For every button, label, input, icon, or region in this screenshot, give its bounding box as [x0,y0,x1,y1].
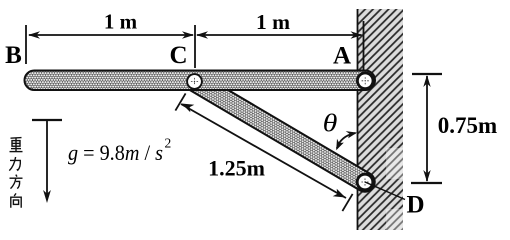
pivot A [357,73,373,89]
dimension B-C: left arrowhead [28,31,40,38]
gravity text 向 (hand-drawn) [11,193,21,207]
pivot C [187,74,202,89]
angle arc arrowhead (bar end) [336,139,344,150]
D pointer line [365,182,405,200]
svg-text:2: 2 [165,136,172,151]
gravity text 力 (hand-drawn) [9,157,20,171]
angle arc arrowhead (wall end) [346,131,357,138]
dimension B-C: tick at C [194,25,196,68]
dimension 1.25m: bottom arrowhead [333,189,346,198]
dimension 1.25m: slash tick (top) [175,93,185,110]
wall ragged light patch 1 [386,148,403,179]
dimension 0.75m: bottom tick [411,182,442,184]
svg-text:B: B [5,42,22,69]
svg-text:1.25m: 1.25m [208,156,265,181]
svg-text:C: C [169,42,187,69]
dimension B-C: line [29,34,193,36]
svg-text:0.75m: 0.75m [438,113,497,138]
svg-text:θ: θ [323,109,338,137]
bar AB (horizontal) [25,71,376,91]
wall (hatched) [357,9,403,230]
gravity direction arrow: head [43,190,51,203]
bar CD (diagonal) [181,68,378,195]
dimension B-C: right arrowhead [182,31,194,38]
wall left edge line [357,9,359,230]
gravity direction arrow: shaft [46,120,48,197]
svg-text:A: A [333,43,351,70]
dimension B-C: tick at B [25,25,27,64]
angle arc θ [337,133,356,149]
dimension C-A: tick at A side [363,21,365,70]
dimension 0.75m: bottom arrowhead [423,170,430,182]
dimension C-A: left arrowhead [196,31,208,38]
pivot D [357,174,373,190]
wall ragged light patch 2 [386,209,403,230]
gravity text 重 (hand-drawn) [10,138,23,152]
dimension 0.75m: line [426,76,428,181]
gravity direction arrow: top bar [32,119,62,121]
svg-text:1 m: 1 m [256,10,290,34]
dimension 1.25m: top arrowhead [182,104,195,113]
dimension C-A: line [197,34,362,36]
dimension 1.25m: line [181,104,346,198]
gravity text 方 (hand-drawn) [10,175,23,189]
svg-text:D: D [406,192,424,219]
dimension 0.75m: top tick [412,73,442,75]
dimension 1.25m: slash tick (bottom) [342,194,352,211]
dimension 0.75m: top arrowhead [423,75,430,87]
svg-text:1 m: 1 m [104,10,138,34]
dimension C-A: right arrowhead [351,31,363,38]
svg-text:g = 9.8m / s: g = 9.8m / s [68,140,163,165]
